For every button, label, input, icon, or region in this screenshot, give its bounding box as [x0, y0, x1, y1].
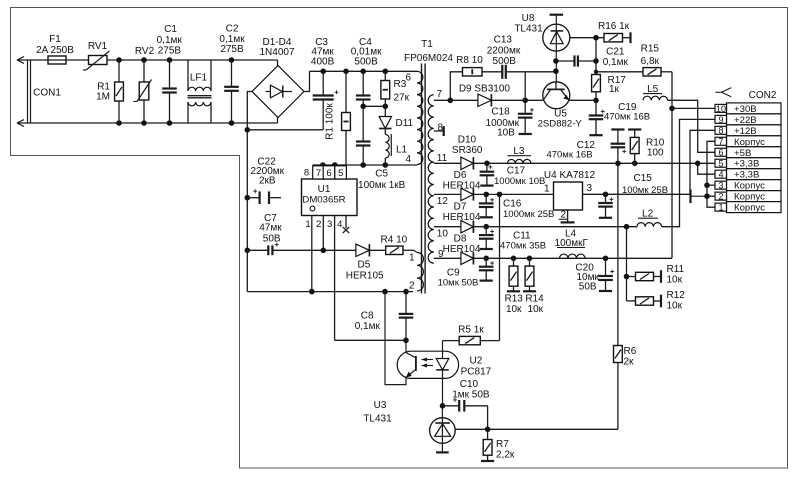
svg-text:0,1мк: 0,1мк	[603, 57, 629, 68]
svg-text:8: 8	[719, 126, 724, 136]
svg-text:CON2: CON2	[749, 90, 777, 101]
svg-text:12: 12	[437, 196, 449, 207]
svg-text:4: 4	[337, 219, 342, 230]
svg-text:D9 SB3100: D9 SB3100	[459, 83, 511, 94]
svg-text:4: 4	[405, 154, 411, 165]
svg-text:C15: C15	[634, 173, 653, 184]
svg-text:R5 1к: R5 1к	[458, 324, 484, 335]
svg-text:6,8к: 6,8к	[641, 56, 660, 67]
svg-text:Корпус: Корпус	[734, 137, 765, 148]
svg-text:F1: F1	[49, 34, 61, 45]
svg-text:2: 2	[316, 219, 321, 230]
svg-text:47мк: 47мк	[259, 223, 282, 234]
svg-text:3: 3	[327, 219, 332, 230]
svg-text:C13: C13	[494, 35, 513, 46]
svg-text:50В: 50В	[263, 234, 281, 245]
svg-text:C17: C17	[507, 166, 526, 177]
svg-text:D11: D11	[396, 118, 414, 129]
svg-text:CON1: CON1	[33, 88, 61, 99]
svg-text:C8: C8	[361, 311, 374, 322]
svg-text:2A 250В: 2A 250В	[36, 45, 74, 56]
svg-text:2: 2	[719, 192, 724, 202]
svg-text:R7: R7	[496, 439, 509, 450]
svg-text:27к: 27к	[394, 93, 410, 104]
svg-text:10: 10	[716, 104, 726, 114]
svg-text:275В: 275В	[158, 46, 182, 57]
svg-text:7: 7	[316, 168, 321, 179]
svg-text:3: 3	[587, 183, 593, 194]
svg-text:C21: C21	[606, 46, 625, 57]
svg-text:TL431: TL431	[363, 414, 392, 425]
svg-text:3: 3	[719, 181, 724, 191]
svg-text:1000мк 25В: 1000мк 25В	[503, 209, 554, 220]
svg-text:10к: 10к	[506, 304, 522, 315]
svg-text:1мк 50В: 1мк 50В	[452, 390, 490, 401]
svg-text:100мкГ: 100мкГ	[555, 238, 589, 249]
svg-text:C18: C18	[491, 107, 510, 118]
svg-text:R8 10: R8 10	[456, 55, 483, 66]
svg-text:R11: R11	[667, 264, 685, 275]
svg-text:D8: D8	[454, 233, 467, 244]
svg-text:DM0365R: DM0365R	[302, 195, 345, 206]
svg-text:U3: U3	[374, 400, 387, 411]
svg-text:Корпус: Корпус	[734, 192, 765, 203]
svg-text:0,1мк: 0,1мк	[355, 321, 381, 332]
svg-text:R4 10: R4 10	[381, 234, 408, 245]
svg-text:1к: 1к	[609, 84, 620, 95]
svg-text:9: 9	[719, 115, 724, 125]
svg-text:6: 6	[719, 148, 724, 158]
svg-text:+12В: +12В	[734, 126, 757, 137]
svg-text:C1: C1	[164, 24, 177, 35]
svg-text:100: 100	[647, 148, 664, 159]
svg-text:470мк 35В: 470мк 35В	[500, 241, 546, 252]
svg-text:1N4007: 1N4007	[259, 47, 294, 58]
svg-text:D10: D10	[458, 135, 477, 146]
svg-text:100мк 25В: 100мк 25В	[622, 185, 668, 196]
svg-text:7: 7	[437, 89, 443, 100]
svg-text:8: 8	[304, 168, 309, 179]
svg-text:R6: R6	[624, 346, 637, 357]
svg-text:R1 100к: R1 100к	[325, 103, 336, 140]
svg-text:2200мк: 2200мк	[487, 45, 521, 56]
svg-text:HER105: HER105	[346, 270, 384, 281]
svg-text:275В: 275В	[220, 44, 244, 55]
svg-text:2: 2	[409, 280, 415, 291]
svg-text:HER104: HER104	[443, 212, 481, 223]
svg-text:10к: 10к	[667, 301, 683, 312]
svg-text:0,1мк: 0,1мк	[157, 35, 183, 46]
svg-text:PC817: PC817	[461, 366, 492, 377]
svg-text:RV2: RV2	[135, 46, 155, 57]
svg-text:C2: C2	[226, 24, 239, 35]
svg-text:100мк 1кВ: 100мк 1кВ	[358, 180, 406, 191]
svg-text:R15: R15	[641, 43, 660, 54]
svg-text:HER104: HER104	[443, 244, 481, 255]
svg-text:RV1: RV1	[88, 41, 108, 52]
svg-text:FP06M024: FP06M024	[404, 53, 453, 64]
svg-text:10: 10	[437, 229, 449, 240]
svg-text:7: 7	[719, 137, 724, 147]
svg-text:2к: 2к	[624, 357, 635, 368]
svg-text:Корпус: Корпус	[734, 203, 765, 214]
svg-text:+22В: +22В	[734, 115, 757, 126]
svg-text:SR360: SR360	[452, 145, 483, 156]
svg-text:5: 5	[338, 168, 343, 179]
svg-text:470мк 16В: 470мк 16В	[546, 149, 592, 160]
svg-text:1М: 1М	[96, 92, 110, 103]
svg-text:500В: 500В	[354, 57, 378, 68]
svg-text:5: 5	[719, 159, 724, 169]
svg-text:L5: L5	[647, 84, 659, 95]
svg-text:1: 1	[305, 219, 310, 230]
svg-text:470мк 16В: 470мк 16В	[604, 112, 650, 123]
svg-text:1: 1	[719, 203, 724, 213]
svg-text:+5В: +5В	[734, 148, 751, 159]
svg-text:U1: U1	[318, 184, 331, 195]
svg-text:U8: U8	[522, 13, 535, 24]
svg-text:R16 1к: R16 1к	[598, 21, 630, 32]
svg-text:HER104: HER104	[443, 180, 481, 191]
svg-text:10к: 10к	[667, 275, 683, 286]
svg-text:T1: T1	[421, 39, 433, 50]
svg-text:+3,3В: +3,3В	[734, 159, 759, 170]
svg-text:1: 1	[409, 252, 415, 263]
svg-text:10В: 10В	[497, 127, 515, 138]
svg-text:11: 11	[437, 153, 448, 164]
svg-text:10мк 50В: 10мк 50В	[438, 277, 479, 288]
svg-text:Корпус: Корпус	[734, 181, 765, 192]
svg-text:2SD882-Y: 2SD882-Y	[538, 119, 583, 130]
svg-text:U2: U2	[470, 356, 483, 367]
svg-text:C5: C5	[375, 169, 388, 180]
svg-text:C10: C10	[460, 379, 479, 390]
svg-text:1: 1	[544, 183, 550, 194]
svg-text:U4 KA7812: U4 KA7812	[544, 170, 596, 181]
svg-text:LF1: LF1	[190, 73, 208, 84]
svg-text:+30В: +30В	[734, 104, 757, 115]
svg-text:6: 6	[326, 168, 331, 179]
svg-text:400В: 400В	[311, 57, 335, 68]
svg-text:500В: 500В	[493, 56, 517, 67]
svg-text:10к: 10к	[528, 304, 544, 315]
svg-text:D5: D5	[358, 259, 371, 270]
svg-text:L3: L3	[513, 146, 525, 157]
svg-text:1000мк 10В: 1000мк 10В	[494, 176, 545, 187]
svg-text:50В: 50В	[579, 282, 597, 293]
svg-text:2кВ: 2кВ	[259, 176, 276, 187]
svg-text:6: 6	[405, 73, 411, 84]
svg-text:+3,3В: +3,3В	[734, 170, 759, 181]
svg-text:2,2к: 2,2к	[496, 450, 515, 461]
svg-text:4: 4	[719, 170, 724, 180]
svg-text:TL431: TL431	[514, 24, 543, 35]
svg-text:L2: L2	[642, 208, 654, 219]
svg-text:R12: R12	[667, 290, 686, 301]
